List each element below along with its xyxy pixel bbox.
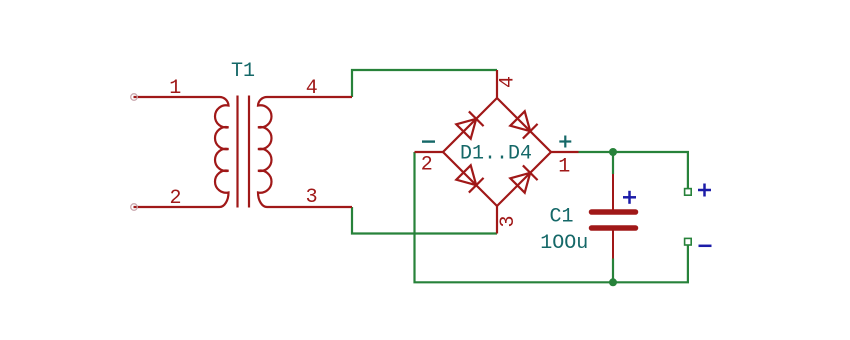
- svg-text:3: 3: [497, 215, 520, 227]
- svg-text:1OOu: 1OOu: [540, 232, 588, 255]
- svg-text:4: 4: [497, 76, 520, 88]
- svg-text:4: 4: [306, 77, 318, 100]
- svg-text:1: 1: [169, 77, 181, 100]
- svg-text:2: 2: [169, 187, 181, 210]
- svg-text:3: 3: [306, 186, 318, 209]
- svg-text:D1..D4: D1..D4: [460, 142, 532, 165]
- svg-text:2: 2: [421, 153, 433, 176]
- svg-text:1: 1: [558, 156, 570, 179]
- svg-text:C1: C1: [549, 205, 573, 228]
- svg-text:T1: T1: [231, 60, 255, 83]
